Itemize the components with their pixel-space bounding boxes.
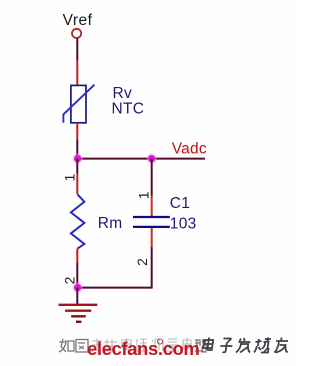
svg-text:1: 1: [62, 173, 78, 181]
svg-text:Vadc: Vadc: [172, 141, 207, 158]
wire node C down to C1: [151, 159, 153, 196]
wire Vref to Rv pin1: [76, 38, 78, 60]
watermark glyph 子: [219, 339, 233, 353]
caption glyph 路: [195, 340, 207, 352]
wire node B to ground: [76, 288, 78, 304]
svg-text:Rm: Rm: [98, 215, 123, 232]
pin 2 of Rm (red): [76, 249, 78, 263]
svg-text:2: 2: [62, 276, 78, 284]
svg-text:1: 1: [135, 191, 151, 199]
watermark glyph 友: [274, 338, 289, 353]
wire C1 down to node B wire: [151, 247, 153, 289]
pin 2 of C1 (red): [151, 228, 153, 247]
capacitor C1 top plate: [133, 216, 170, 218]
caption hidden glyph 测: [151, 339, 163, 351]
thermistor Rv diagonal stroke with hook: [63, 85, 94, 123]
caption glyph 图: [76, 340, 88, 353]
caption hidden glyph 电: [122, 338, 132, 350]
caption glyph 如: [59, 339, 74, 352]
junction node A: [73, 154, 83, 164]
thermistor Rv body rectangle: [71, 85, 86, 122]
ground symbol: [59, 305, 98, 322]
resistor Rm zigzag: [71, 194, 85, 248]
terminal circle (Vref port): [72, 29, 81, 38]
wire node B horizontal to capacitor branch: [77, 287, 151, 289]
pin 1 of Rm (red): [76, 174, 78, 195]
svg-text:elecfans.com: elecfans.com: [87, 338, 199, 359]
junction node C on Vadc wire: [147, 154, 157, 164]
caption hidden glyph 热: [92, 339, 102, 353]
wire Rv to node A: [76, 140, 78, 159]
pin 2 of Rv (red): [76, 123, 78, 140]
junction node B: [73, 283, 83, 293]
caption hidden glyph 敏: [104, 339, 117, 351]
svg-text:Vref: Vref: [63, 12, 93, 29]
caption hidden glyph 量: [166, 339, 179, 351]
svg-text:C1: C1: [170, 195, 190, 212]
wire node A horizontal to Vadc: [76, 158, 205, 160]
svg-text:103: 103: [170, 216, 197, 233]
watermark glyph 烧: [254, 338, 271, 353]
pin 1 of C1 (red): [151, 196, 153, 216]
watermark registered mark: [157, 339, 162, 344]
capacitor C1 bottom plate: [133, 226, 170, 228]
svg-text:NTC: NTC: [112, 101, 145, 118]
caption hidden glyph 阻: [137, 339, 148, 352]
svg-text:2: 2: [134, 258, 150, 266]
svg-text:Rv: Rv: [113, 85, 133, 102]
wire node A down to Rm: [76, 159, 78, 174]
watermark glyph 发: [236, 338, 252, 353]
wire Rm to node B: [76, 263, 78, 288]
pin 1 of Rv (red): [76, 61, 78, 86]
caption hidden glyph 电2: [183, 338, 191, 350]
watermark glyph 电: [203, 338, 215, 351]
